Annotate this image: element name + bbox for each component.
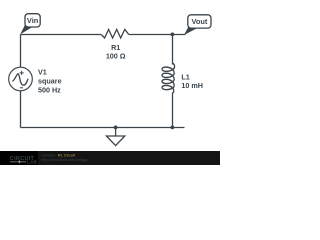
wire left vertical upper — [20, 35, 22, 68]
svg-text:Vout: Vout — [191, 17, 207, 26]
svg-text:V1: V1 — [38, 67, 47, 76]
wire bottom horizontal — [21, 127, 185, 129]
voltage source V1 — [9, 67, 33, 91]
wire top-left horizontal segment — [21, 34, 102, 36]
net label Vin — [20, 14, 40, 35]
svg-text:100 Ω: 100 Ω — [106, 51, 126, 60]
svg-text:LAB: LAB — [27, 160, 38, 165]
net label Vout — [184, 15, 211, 35]
junction node dot bottom-right — [171, 126, 175, 130]
wire resistor to Vout node — [129, 34, 186, 36]
junction node dot top-right — [171, 33, 175, 37]
wire left vertical lower — [20, 91, 22, 128]
svg-text:500 Hz: 500 Hz — [38, 86, 61, 95]
ground — [106, 128, 124, 146]
junction node dot ground — [114, 126, 118, 130]
wire right vertical upper — [172, 35, 174, 65]
svg-text:10 mH: 10 mH — [181, 81, 203, 90]
resistor R1 — [101, 29, 129, 60]
inductor L1 — [162, 63, 203, 93]
watermark bar — [0, 151, 220, 165]
svg-text:Vin: Vin — [27, 16, 39, 25]
svg-text:http://circuitlab.com/c6fqjg: http://circuitlab.com/c6fqjg — [41, 157, 87, 162]
svg-text:square: square — [38, 77, 62, 86]
label V1 value — [38, 67, 62, 94]
wire right vertical lower — [172, 93, 174, 128]
